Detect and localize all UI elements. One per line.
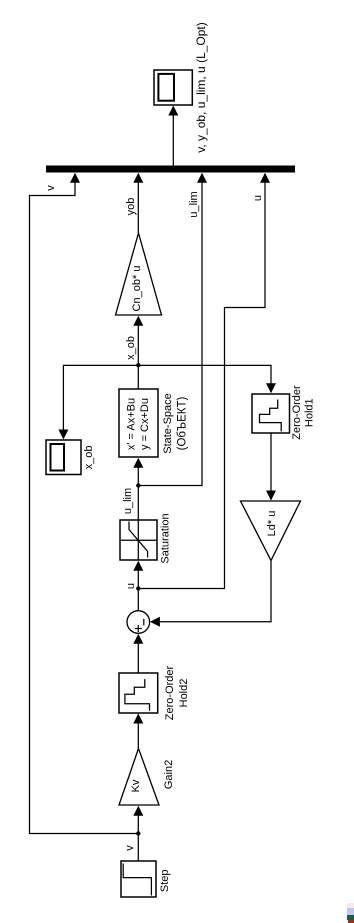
svg-text:x_ob: x_ob	[125, 336, 137, 360]
wire sum to saturation	[137, 562, 139, 611]
svg-text:u_lim: u_lim	[122, 488, 134, 514]
svg-text:Ld* u: Ld* u	[266, 511, 278, 537]
svg-text:u_lim: u_lim	[188, 191, 200, 217]
scope x_ob	[46, 440, 81, 475]
svg-text:Gain2: Gain2	[163, 760, 175, 789]
wire saturation to state-space	[137, 459, 139, 520]
node junction u	[136, 586, 140, 590]
gain Gain2	[119, 749, 159, 806]
wire gain2 to hold2	[137, 715, 139, 749]
wire hold2 to sum	[137, 635, 139, 673]
node junction u_lim	[136, 483, 140, 487]
wire u_lim to mux	[138, 174, 202, 486]
svg-text:u: u	[252, 195, 264, 201]
svg-text:x_ob: x_ob	[83, 446, 95, 470]
svg-text:Zero-Order: Zero-Order	[164, 665, 176, 720]
svg-text:State-Space: State-Space	[162, 393, 174, 454]
wire x_ob branch to scope x_ob	[63, 365, 138, 438]
source Step	[121, 861, 156, 897]
gain Ld	[241, 501, 301, 561]
svg-text:x' = Ax+Bu: x' = Ax+Bu	[126, 398, 138, 450]
zero-order hold2	[119, 673, 158, 713]
wire yob gain to mux	[137, 174, 139, 233]
zero-order hold1	[252, 394, 290, 433]
svg-text:Hold1: Hold1	[304, 398, 316, 427]
svg-text:v: v	[45, 185, 57, 191]
node junction v	[136, 831, 140, 835]
svg-text:Cn_ob* u: Cn_ob* u	[131, 266, 143, 312]
svg-text:Zero-Order: Zero-Order	[291, 385, 303, 440]
svg-text:y = Cx+Du: y = Cx+Du	[139, 398, 151, 450]
svg-text:Saturation: Saturation	[160, 513, 172, 563]
wire u to mux	[138, 174, 265, 589]
scope Scope1 (top)	[154, 70, 192, 105]
node junction x_ob	[136, 363, 140, 367]
wire hold1 to gain Ld	[270, 433, 272, 500]
mux bar	[46, 166, 295, 173]
state-space block U1	[119, 389, 158, 457]
svg-text:Kv: Kv	[130, 779, 142, 792]
wire v into mux	[30, 174, 139, 834]
watermark blob bottom-right	[347, 903, 354, 923]
svg-text:(ОбЪЕКТ): (ОбЪЕКТ)	[176, 396, 188, 450]
svg-text:Step: Step	[159, 869, 171, 892]
wire mux to scope	[172, 107, 174, 166]
gain Cn_ob	[116, 233, 162, 315]
saturation block	[120, 520, 157, 560]
wire gain Ld to sum	[151, 561, 271, 622]
svg-text:u: u	[125, 583, 137, 589]
svg-text:v, y_ob, u_lim, u (L_Opt): v, y_ob, u_lim, u (L_Opt)	[194, 22, 208, 153]
wire state-space output x_ob up to gain	[137, 317, 139, 389]
svg-text:v: v	[124, 845, 136, 851]
svg-text:yob: yob	[125, 198, 137, 216]
wire step to gain2	[137, 807, 139, 861]
svg-text:Hold2: Hold2	[178, 679, 190, 708]
wire x_ob branch to zero-order hold1	[138, 365, 271, 392]
sum S1	[127, 611, 150, 634]
